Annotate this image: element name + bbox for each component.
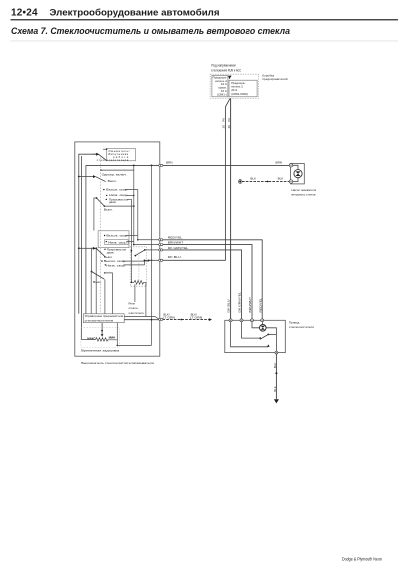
svg-text:LT GRN: LT GRN (190, 315, 203, 319)
wire: pivot down to control box (90, 272, 92, 314)
wire color labels on fuse feed wires (221, 118, 231, 129)
wire: common feed bus V1 inside switch (79, 154, 97, 314)
wire: DK BLU to park switch contact arrow (231, 322, 269, 347)
feed arrow from bus V1 (78, 176, 80, 178)
pump motor M1 (293, 165, 298, 169)
wash/delay switch (Выкл.) (91, 248, 113, 314)
wire: contact riser Низк (126, 194, 134, 196)
wire: control box output lower / BLK-LT GRN (124, 319, 159, 321)
ground terminal G100 (238, 180, 242, 184)
fuse element arrow between F4 and F2 (228, 76, 231, 80)
fuse F4 (Предохранитель 4, 10 А) (212, 76, 228, 97)
svg-text:(С802-С802): (С802-С802) (231, 92, 248, 96)
svg-text:20: 20 (221, 125, 225, 129)
feed arrow from bus V1 (78, 247, 80, 249)
svg-text:ветрового стекла: ветрового стекла (292, 193, 316, 197)
svg-text:Однокр. включ.: Однокр. включ. (102, 173, 128, 177)
wire: Высок to RED/YEL riser (125, 235, 138, 237)
wire: pivot riser down to control box (95, 248, 97, 313)
washer switch label box (Омыватель/Импульсная работа стеклоочистителя) (97, 148, 136, 161)
wire: to BLK/LT GRN riser (117, 344, 151, 346)
wire: control box output upper (124, 317, 159, 320)
wire: coil lead to intermittent riser (131, 281, 134, 283)
junction: BRN bus / relay riser (151, 165, 153, 167)
mode switch lower half box (Высок. скор. / Низк. скор.) (98, 231, 138, 248)
wire: RED/YEL segment inside switch (138, 239, 160, 241)
svg-text:BRN: BRN (276, 161, 283, 165)
switch arm at Выкл. (96, 177, 106, 182)
wire: coil drive lead down to control box (134, 284, 136, 302)
svg-text:RED/YEL: RED/YEL (168, 236, 183, 240)
svg-text:BRN/WHT: BRN/WHT (168, 241, 184, 245)
wire: DK GRN/YEL from switch to wiper motor (162, 250, 241, 319)
wire: BLK ground wire of wiper motor (275, 354, 277, 399)
mechanical link (dashed) from washer arm to control box (100, 158, 102, 314)
washer pump (Насос омывателя ветрового стекла) (289, 164, 304, 184)
wire: contact right to riser (105, 273, 113, 314)
ground symbol G101 (274, 399, 279, 403)
wiper relay (Реле стеклоочистителя) dashed box (130, 247, 146, 317)
node: washer switch output (106, 148, 108, 150)
wiper/washer switch assembly S1 outer box (75, 142, 160, 356)
mode switch upper half (Высок./Низк./Прерывистое/Выкл.) (94, 188, 138, 283)
pivot and arm (96, 197, 98, 199)
wire: DK GRN/YEL segment inside switch (145, 249, 160, 251)
svg-text:RED/YEL: RED/YEL (258, 298, 262, 313)
node: power note "Под напряжением в положениях RUN и ACC" (211, 63, 241, 72)
svg-text:PK: PK (227, 118, 231, 122)
relay contact arm (134, 255, 136, 257)
svg-text:стеклоочистителя: стеклоочистителя (289, 325, 314, 329)
wire: contact riser Прерывистое (127, 199, 131, 282)
wire: BRN bus along switch top (86, 164, 160, 166)
svg-text:в положениях RUN и ACC: в положениях RUN и ACC (211, 68, 241, 72)
svg-text:Dodge & Plymouth Neon: Dodge & Plymouth Neon (342, 556, 382, 561)
wire: BRN/WHT segment inside switch (134, 244, 160, 246)
wire: pivot stub to riser (268, 333, 276, 335)
wire: BRN from switch to washer pump (162, 164, 289, 166)
wire: contact stubs to relay (123, 259, 149, 262)
wire: left drop of BRN bus down to control box (85, 165, 87, 313)
svg-text:BRN: BRN (166, 161, 173, 165)
svg-text:движ.: движ. (107, 250, 115, 254)
wire: DK BLU segment inside switch to connector (144, 259, 159, 261)
arm (96, 248, 105, 256)
wiper motor M2 (261, 322, 263, 325)
wire: Низк to BRN/WHT riser (126, 241, 134, 243)
svg-text:DK GRN/YEL: DK GRN/YEL (238, 292, 242, 313)
wire: Выкл contact line (104, 205, 133, 207)
svg-text:PK: PK (221, 118, 225, 122)
wire: feed bus V2 to delay pot (81, 156, 95, 339)
svg-text:DK BLU: DK BLU (168, 255, 181, 259)
wire: arm end down to control box (104, 279, 106, 313)
washer switch arm with feed arrow (93, 153, 97, 155)
connector pins on switch right edge (159, 164, 163, 320)
svg-text:стеклоочистителем: стеклоочистителем (85, 319, 114, 322)
wire: BLK ground wire of washer pump (242, 181, 289, 183)
svg-text:DK GRN/YEL: DK GRN/YEL (168, 246, 189, 250)
relay coil (134, 280, 144, 284)
svg-text:предохранителей: предохранителей (262, 77, 287, 81)
vertical wire labels at wiper motor (227, 292, 263, 313)
svg-text:Схема 7. Стеклоочиститель и ом: Схема 7. Стеклоочиститель и омыватель ве… (11, 26, 290, 36)
park switch arm (260, 334, 269, 339)
node label: Коробка предохранителей (262, 73, 287, 81)
junction on motor ground wire (275, 372, 277, 374)
fuse F2 (Предохранитель 2, 20 А) (229, 80, 257, 97)
svg-text:Выключатель стеклоочистителя/о: Выключатель стеклоочистителя/омывателя (81, 361, 154, 365)
wire: motor to ground riser (266, 328, 276, 353)
mode switch lower contacts (Прерывистое/Выкл/Высок/Низк) (78, 247, 149, 314)
wire: BRN/WHT from switch to wiper motor (162, 245, 252, 319)
wire: contact to BRN bus (101, 165, 134, 170)
svg-text:Выкл.: Выкл. (108, 179, 117, 183)
svg-text:Низк. скор.: Низк. скор. (108, 240, 128, 244)
svg-text:Управление прерывистым: Управление прерывистым (85, 315, 124, 318)
wire: contact riser Высок (125, 190, 138, 240)
intermittent control box (Управление прерывистым стеклоочистителем) (83, 314, 124, 323)
wire: BRN/WHT to motor low-speed brush (252, 322, 259, 328)
svg-text:Электрооборудование автомобиля: Электрооборудование автомобиля (50, 7, 220, 17)
wire: BRN riser bus down right side (151, 165, 153, 345)
svg-text:Выкл.: Выкл. (104, 207, 113, 211)
svg-text:BLK: BLK (250, 176, 256, 180)
wire: pivot up (91, 248, 93, 272)
connector pin bottom (275, 351, 278, 354)
svg-text:Временная задержка: Временная задержка (81, 349, 119, 353)
svg-text:DK BLU: DK BLU (227, 300, 231, 313)
svg-text:BLK: BLK (278, 176, 284, 180)
fuse box (Коробка предохранителей) dashed enclosure (210, 74, 259, 98)
svg-text:BLK: BLK (273, 386, 277, 392)
svg-text:Низк. скор.: Низк. скор. (106, 263, 126, 267)
wire: fuse F2 output straight down to wiper motor (230, 98, 232, 320)
svg-text:стеклоочистителя: стеклоочистителя (97, 158, 129, 162)
wire: RED/YEL from switch to wiper motor (162, 240, 262, 319)
junction on BLK wire (267, 181, 269, 183)
svg-text:(С841-): (С841-) (217, 92, 227, 96)
wire: fuse F4 output down to DK BLU line (left feed wire) (161, 98, 230, 260)
wire: pot right lead (108, 340, 117, 346)
header title (11, 7, 399, 41)
svg-text:20: 20 (227, 125, 231, 129)
svg-text:BLK: BLK (273, 363, 277, 369)
pump connector pin 1 (289, 164, 292, 167)
delay potentiometer R1 (Временная задержка) (81, 323, 152, 348)
svg-text:движ.: движ. (109, 200, 117, 204)
svg-text:Низк. скор.: Низк. скор. (109, 193, 129, 197)
svg-text:LT GRN: LT GRN (163, 315, 176, 319)
wire: DK GRN/YEL to park switch contact (242, 322, 260, 338)
wire: coil right lead down (144, 282, 146, 316)
svg-text:Реле: Реле (129, 301, 136, 305)
wire: riser from BRN junction down (Низк feed) (133, 170, 135, 245)
junction: BRN bus / momentary contact riser (133, 165, 135, 167)
wire: pot top lead from control box bottom (116, 323, 118, 340)
svg-text:12•24: 12•24 (11, 8, 38, 19)
svg-text:МАКС: МАКС (87, 336, 96, 340)
momentary switch (Однокр. включ. / Выкл.) (78, 165, 134, 183)
pump connector pin 2 (289, 180, 292, 183)
svg-text:МИН: МИН (109, 336, 116, 340)
svg-text:Привод: Привод (289, 321, 300, 325)
control arrow onto delay pot (101, 323, 103, 335)
svg-text:BRN/WHT: BRN/WHT (248, 297, 252, 313)
svg-text:очистителя: очистителя (129, 311, 145, 315)
relay armature link (dashed) (138, 253, 140, 281)
connector pins on top edge (229, 319, 264, 322)
wire: pivot feed L (94, 198, 97, 231)
svg-text:стекло-: стекло- (129, 306, 139, 310)
svg-text:Насос омывателя: Насос омывателя (292, 188, 317, 192)
wiper motor unit (Привод стеклоочистителя) (225, 319, 285, 354)
svg-text:Под напряжением: Под напряжением (211, 63, 236, 67)
